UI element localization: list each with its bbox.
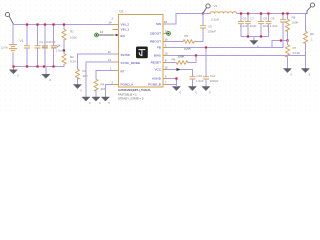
resistor R9 (load) [305, 14, 307, 32]
svg-text:100K: 100K [178, 55, 185, 59]
wire SW [168, 14, 203, 25]
svg-text:VIN_2: VIN_2 [121, 23, 130, 27]
junction dots VOUT rail [240, 12, 289, 37]
wire V1 column [12, 25, 14, 67]
svg-text:2.2uF: 2.2uF [240, 24, 248, 28]
svg-text:LM63615DQRPH_TRANS: LM63615DQRPH_TRANS [118, 88, 150, 92]
TI logo [136, 47, 148, 59]
resistor R2 8.2K [63, 52, 65, 67]
ground RT [92, 97, 100, 101]
svg-text:24.9K: 24.9K [293, 51, 301, 55]
svg-text:CBOOT: CBOOT [150, 32, 161, 36]
wire VCC [168, 70, 193, 77]
wire CBOOT column [195, 14, 203, 42]
capacitor C2 [37, 25, 39, 67]
wire FB (net A) [168, 47, 283, 49]
resistor R8 (fb top) [287, 14, 289, 20]
capacitor C12 (feedforward) [282, 14, 284, 48]
ground R7 [284, 69, 292, 73]
svg-text:R6: R6 [172, 58, 176, 62]
svg-text:C1: C1 [39, 40, 43, 44]
svg-text:10uF: 10uF [250, 24, 257, 28]
junction dots input rail [12, 23, 65, 67]
inductor L1 [203, 13, 210, 15]
svg-text:100K: 100K [70, 36, 77, 40]
pin names right [148, 22, 161, 87]
capacitor C3 [44, 25, 46, 67]
IC U1 box [119, 15, 164, 88]
resistor R5 (rboot) [168, 41, 183, 43]
svg-text:STEADY_STATE = 0: STEADY_STATE = 0 [118, 97, 144, 101]
svg-text:AGND: AGND [152, 77, 162, 81]
junction BIAS/R6 [195, 54, 197, 56]
wire output cap gnd rail [241, 37, 269, 41]
resistor R7 (fb bottom) [287, 41, 289, 45]
resistor R1 100K [63, 25, 65, 50]
svg-text:R5: R5 [185, 34, 189, 38]
output capacitor C6 [240, 14, 242, 37]
svg-text:SW: SW [156, 22, 161, 26]
wire VOUT rail [237, 13, 307, 15]
svg-text:VIN_1: VIN_1 [121, 28, 130, 32]
svg-text:R2: R2 [70, 55, 74, 59]
ground C11 [173, 87, 181, 91]
wire GND rail (input) [13, 66, 64, 68]
probe P3 (VOUT) [307, 7, 311, 14]
junction FB/C11 [205, 46, 207, 48]
svg-text:C9: C9 [271, 17, 275, 21]
svg-text:R4: R4 [101, 83, 105, 87]
svg-text:RESET: RESET [151, 61, 161, 65]
svg-text:32K: 32K [83, 74, 88, 78]
capacitor C11 [205, 49, 207, 77]
output capacitor C9 [268, 14, 270, 37]
svg-text:8.2K: 8.2K [70, 60, 76, 64]
svg-text:U1: U1 [120, 10, 124, 14]
svg-text:100K: 100K [292, 21, 299, 25]
svg-text:C6: C6 [243, 17, 247, 21]
capacitor C1 [26, 25, 28, 67]
pin numbers [100, 17, 168, 85]
green flag CBOOT [167, 32, 171, 36]
svg-text:V1: V1 [20, 39, 24, 43]
wire FB tap [272, 41, 288, 48]
svg-text:C8: C8 [263, 17, 267, 21]
svg-text:100nF: 100nF [208, 30, 217, 34]
svg-text:1.0uF: 1.0uF [56, 49, 64, 53]
resistor R4 [94, 79, 98, 91]
IC pin stubs left [113, 25, 119, 85]
ground R9 [302, 69, 310, 73]
svg-text:PGND_B: PGND_B [148, 83, 161, 87]
capacitor C4 [53, 25, 55, 67]
wire AGND / PGND_B [168, 79, 177, 87]
wire RT [96, 71, 113, 80]
capacitor C5 (boot) [201, 26, 206, 28]
svg-text:RBOOT: RBOOT [150, 40, 161, 44]
wire PGND_A [106, 85, 114, 98]
svg-text:C5: C5 [208, 25, 212, 29]
svg-text:FB: FB [157, 46, 161, 50]
resistor R6 (reset pullup) [188, 57, 196, 63]
wire SS_TRK [78, 54, 114, 69]
output capacitor C8 [260, 14, 262, 37]
ground C10 [189, 87, 197, 91]
ground R3 [74, 85, 82, 89]
svg-text:V1: V1 [214, 4, 218, 8]
svg-text:1.0uF: 1.0uF [196, 79, 204, 83]
svg-text:R7: R7 [293, 46, 297, 50]
wire VIN top rail [13, 24, 113, 26]
svg-text:100pF: 100pF [210, 79, 219, 83]
output capacitor C7 [247, 14, 249, 37]
source V1 [10, 45, 17, 51]
IC pin stubs right [163, 24, 168, 85]
pin names left [121, 23, 141, 87]
svg-text:C11: C11 [210, 74, 216, 78]
probe P2 (SW) [203, 4, 210, 13]
svg-text:VCC: VCC [154, 68, 161, 72]
capacitor C10 [190, 77, 195, 79]
svg-text:RT: RT [121, 69, 125, 73]
svg-text:FASTGB_B = 1: FASTGB_B = 1 [118, 92, 137, 96]
ground (input mid) [45, 67, 47, 75]
resistor R3 [76, 69, 80, 79]
svg-text:PGND_A: PGND_A [121, 83, 135, 87]
svg-text:1.0uF: 1.0uF [270, 24, 278, 28]
EN net flag [95, 33, 99, 37]
ground PGND_A [102, 97, 110, 101]
current arrow on VCC wire [177, 68, 181, 71]
svg-text:12Vin: 12Vin [1, 45, 9, 49]
svg-text:BIAS: BIAS [154, 54, 161, 58]
svg-text:R9: R9 [310, 32, 314, 36]
svg-text:R8: R8 [292, 16, 296, 20]
wire BIAS (net B) [168, 55, 306, 57]
ground output caps [250, 41, 258, 45]
svg-text:C4: C4 [57, 44, 61, 48]
probe P1 (input) [5, 12, 13, 23]
svg-text:SYNC_MODE: SYNC_MODE [121, 61, 141, 65]
ground SYNC [82, 97, 90, 101]
ground AGND [202, 87, 210, 91]
svg-text:R1: R1 [70, 30, 74, 34]
svg-text:100K: 100K [184, 46, 191, 50]
svg-text:3.3uH: 3.3uH [211, 18, 219, 22]
svg-text:EN: EN [121, 34, 125, 38]
node junction R1/R2 [63, 49, 65, 51]
wire SYNC_MODE [86, 62, 113, 97]
svg-text:C10: C10 [197, 74, 203, 78]
svg-text:C7: C7 [250, 17, 254, 21]
junction SW node [202, 12, 204, 14]
ground (input left) [13, 67, 15, 70]
